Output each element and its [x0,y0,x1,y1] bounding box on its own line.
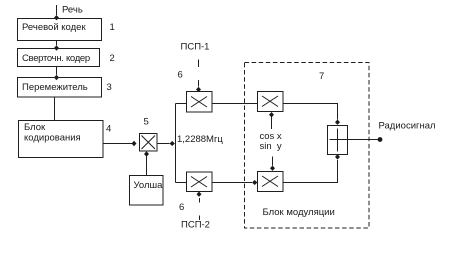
multiplier M6 lower [187,172,213,192]
wire block3 to block4 [54,97,56,121]
wire Уолша to multiplier 5 [144,151,149,175]
svg-text:Речь: Речь [62,5,83,16]
svg-text:Радиосигнал: Радиосигнал [379,121,436,132]
label 2 [110,53,115,64]
wire bus to multiplier 6 lower [176,182,187,184]
label 6 lower [179,202,184,213]
multiplier M6 upper [187,92,213,113]
svg-text:ПСП-2: ПСП-2 [181,220,210,231]
svg-text:4: 4 [106,124,111,135]
label 5 [144,117,149,128]
node Радиосигнал output label [379,121,436,132]
node ПСП-2 label [181,220,210,231]
svg-text:5: 5 [144,117,149,128]
svg-text:Перемежитель: Перемежитель [22,82,88,93]
wire summer to output [348,137,383,142]
wire multiplier 6 upper to modulator upper multiplier [212,103,258,105]
block U2 Сверточн. кодер [18,49,100,67]
wire modulator lower multiplier to summer [283,154,340,182]
wire multiplier 6 lower to modulator lower multiplier [212,180,257,185]
wire speech input into block 1 [54,5,59,20]
label 4 [106,124,111,135]
wire bus to multiplier 6 upper [176,103,187,105]
wire block4 to multiplier 5 [103,141,137,146]
svg-text:2: 2 [110,53,115,64]
multiplier M5 [140,134,158,152]
node cos x label [260,131,282,142]
svg-text:Блок: Блок [24,122,46,133]
svg-text:ПСП-1: ПСП-1 [181,42,210,53]
svg-text:Блок модуляции: Блок модуляции [263,207,335,218]
node Речь (speech input label) [62,5,83,16]
wire cos x into modulator upper multiplier [269,112,274,129]
svg-text:1: 1 [110,22,115,33]
label 1,2288Мгц [177,134,223,145]
label 7 [319,71,324,82]
svg-text:1,2288Мгц: 1,2288Мгц [177,134,223,145]
svg-text:Речевой кодек: Речевой кодек [22,22,86,33]
wire block2 to block3 [54,67,59,81]
svg-text:кодирования: кодирования [24,133,81,144]
svg-text:Сверточн. кодер: Сверточн. кодер [22,53,90,64]
block U1 Речевой кодек [18,19,102,41]
wire modulator upper multiplier to summer [283,104,340,125]
svg-text:Уолша: Уолша [134,180,164,191]
svg-text:6: 6 [179,202,184,213]
node junction vertical bus [175,104,177,183]
block 7 Блок модуляции dashed boundary [245,63,370,229]
summer U8 [328,126,348,155]
block Уолша (Walsh code) [130,176,164,206]
multiplier modulator lower [258,172,284,192]
svg-text:6: 6 [178,70,183,81]
node ПСП-1 label [181,42,210,53]
svg-text:7: 7 [319,71,324,82]
wire ПСП-1 dashed into multiplier 6 upper [196,60,201,93]
node sin y label [260,141,282,152]
block U4 Блок кодирования [19,121,104,158]
svg-text:3: 3 [107,82,112,93]
svg-text:sin y: sin y [260,141,282,152]
block U3 Перемежитель [18,78,102,98]
label 6 upper [178,70,183,81]
label 3 [107,82,112,93]
wire multiplier 5 to junction node [157,141,175,146]
label Блок модуляции [263,207,335,218]
wire block1 to block2 [54,41,59,51]
label 1 [110,22,115,33]
wire sin y into modulator lower multiplier [270,157,275,171]
multiplier modulator upper [258,92,284,112]
wire ПСП-2 dashed into multiplier 6 lower [197,192,202,221]
